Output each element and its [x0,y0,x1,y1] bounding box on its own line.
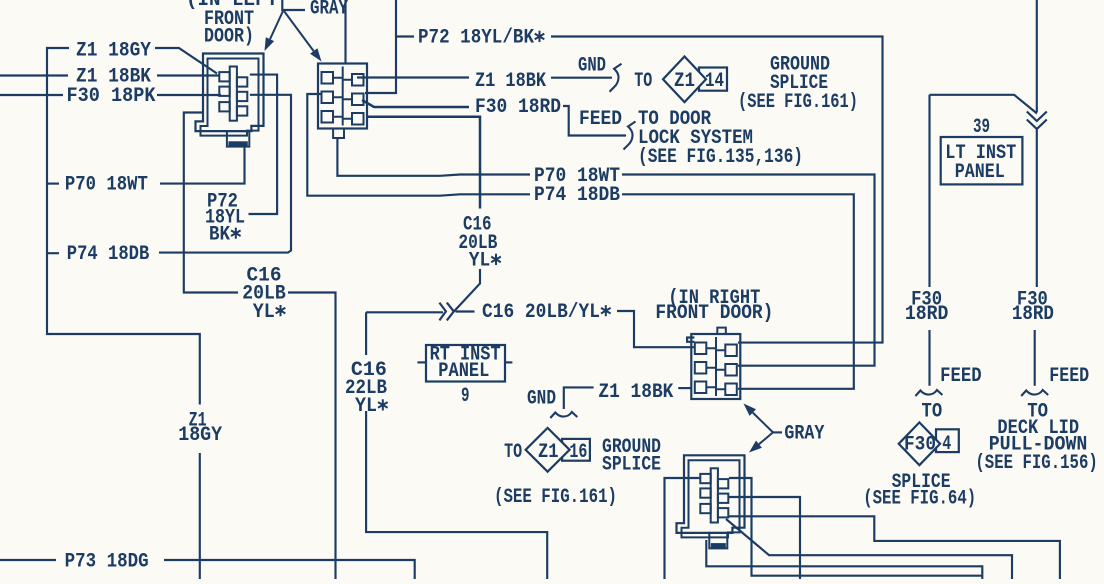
svg-text:(SEE FIG.161): (SEE FIG.161) [494,486,617,509]
connector C2 (left door harness) [318,64,367,129]
wire P70 18WT from C2 tab [337,138,530,176]
wire C4 tab to bottom [706,540,982,579]
wire C16 22LB YL vertical [365,312,367,355]
wire P70 18WT to right door [622,175,875,366]
connector C1 (in left front door) [196,54,264,132]
arrow GRAY to connector C4 [759,432,773,444]
wire P72 label stub [396,35,414,37]
connector C3 step notch [687,338,694,342]
wire C16 20LB from C1 left side [184,113,238,293]
wire Z1 18BK GND bracket [564,387,594,409]
star after P72 18YL/BK [535,31,545,42]
svg-text:FEED: FEED [1049,365,1089,388]
wire Z1 18GY vertical lower segment [199,453,201,579]
wire bus tick to P70 18WT [47,183,59,185]
box LT INST PANEL [941,137,1023,184]
svg-text:FRONT DOOR): FRONT DOOR) [655,302,773,325]
svg-text:TO: TO [922,401,943,424]
svg-text:SPLICE: SPLICE [602,453,661,476]
connector C4 (right door harness) [677,455,745,533]
svg-text:C16 20LB/YL: C16 20LB/YL [482,301,600,324]
svg-text:16: 16 [569,441,587,464]
svg-text:FEED: FEED [579,108,622,131]
wire GRAY leader from top edge [282,0,305,10]
wire C16 22LB YL to bottom edge [366,411,547,579]
wire C4 right pin 1 to bottom [729,478,982,576]
box RT INST PANEL [426,345,505,382]
svg-text:FEED: FEED [940,365,982,388]
wire Z1 18BK into connector C1 [157,74,219,76]
splice diamond Z1-16 [526,428,570,472]
wire F30 right vertical 2 [1034,330,1036,386]
svg-text:TO: TO [504,441,522,464]
svg-text:18GY: 18GY [178,424,223,447]
star after YL2 [491,254,501,265]
svg-text:YL: YL [469,250,491,273]
star after YL1 [276,305,286,316]
svg-text:Z1 18BK: Z1 18BK [475,70,547,93]
wire Z1 18BK from C2 to GND hook [357,76,469,78]
wire P74 18DB to right door [622,194,854,388]
hook wire continuation FEED door lock [624,122,636,150]
svg-text:14: 14 [705,70,724,93]
svg-text:39: 39 [973,116,990,139]
wire F30 left vertical [928,95,930,287]
wire C16 below label to break [454,269,480,311]
wire break chevron down 2 [1027,120,1047,130]
box terminal 4 [936,429,959,452]
svg-text:YL: YL [253,301,275,324]
wire break chevron 2 [447,303,454,321]
svg-text:9: 9 [461,385,470,408]
wire Z1 18GY diagonal into connector C1 [155,48,217,74]
wire C16 20LB to bottom edge [288,293,336,580]
svg-text:Z1 18BK: Z1 18BK [598,381,674,404]
svg-text:PANEL: PANEL [955,161,1005,184]
svg-text:BK: BK [209,224,231,247]
hook wire continuation F30 deck lid [1021,390,1048,396]
svg-text:Z1 18GY: Z1 18GY [76,40,152,63]
wire P74 18DB from C1 right pin [159,95,291,253]
wire P74 18DB from C2 left pin [307,94,530,196]
box terminal 14 [699,68,727,91]
wire P70 18WT to C1 bottom tab [160,146,245,184]
svg-text:P74 18DB: P74 18DB [67,243,150,266]
wire F30 right vertical lower [1036,129,1038,287]
star after BK [231,228,241,239]
hook wire continuation GND [610,64,622,92]
wire Z1 18BK into C3 [678,387,691,389]
wire bus tick to P74 18DB [47,252,59,254]
svg-text:F30 18RD: F30 18RD [475,96,561,119]
wire Z1 bus left vertical [47,48,200,405]
stub left of RT INST PANEL box [417,361,426,363]
wire P73 18DG from left edge [0,559,56,561]
svg-text:P70 18WT: P70 18WT [65,174,148,197]
wire P72 18YL/BK to C2 right pin [365,0,396,93]
star after C16 20LB/YL [601,305,611,316]
svg-text:P73 18DG: P73 18DG [65,551,149,574]
wire Z1 18BK label to hook [551,77,612,79]
arrow GRAY to connector C2 [284,11,314,51]
svg-text:Z1: Z1 [538,441,559,464]
svg-text:(SEE FIG.156): (SEE FIG.156) [975,452,1097,475]
wire F30 left vertical 2 [928,330,930,386]
wire GRAY leader bottom [773,431,782,433]
wire F30 18PK into connector C1 [157,94,221,96]
connector C3 (in right front door) [691,334,740,399]
hook wire continuation F30 splice [915,390,942,396]
splice diamond Z1-14 [663,57,706,103]
wire P72 18YL/BK to right door [551,37,883,343]
svg-text:YL: YL [355,395,377,418]
arrow GRAY to connector C3 [753,413,773,433]
wire break chevron down 1 [1027,112,1047,122]
wire F30 18PK from left edge [0,94,63,96]
wire F30 18RD from C2 [362,100,469,107]
svg-text:TO: TO [634,70,652,93]
star after YL3 [378,399,388,410]
svg-text:F30 18PK: F30 18PK [67,85,157,108]
svg-text:GND: GND [578,55,606,78]
wire C4 right pin 2 to bottom [729,497,800,579]
wire C16 20LB YL from C2 [366,117,480,209]
hook wire continuation GND splice 2 [550,412,577,418]
svg-text:DOOR): DOOR) [204,26,254,49]
svg-text:GND: GND [527,388,556,411]
svg-text:4: 4 [942,433,951,456]
stub right of RT INST PANEL box [505,361,512,363]
svg-text:18RD: 18RD [1012,303,1054,326]
svg-text:PANEL: PANEL [438,360,489,383]
svg-text:GRAY: GRAY [784,423,825,446]
svg-text:(SEE FIG.135,136): (SEE FIG.135,136) [638,146,803,169]
svg-text:GRAY: GRAY [310,0,348,21]
svg-text:F30: F30 [904,434,936,457]
splice diamond F30-4 [899,422,940,465]
wire C16 break to label [456,310,475,312]
wire C16 20LB/YL left segment [366,311,443,313]
wire C4 right pin 3 to bottom right [729,516,1060,579]
wire C4 diagonal to bottom [726,519,1012,579]
wire F30 right vertical from top edge [1036,0,1038,112]
svg-text:P72 18YL/BK: P72 18YL/BK [418,27,535,50]
wire C16 20LB/YL into C3 [617,311,694,347]
wire F30 18RD to FEED hook [563,106,626,136]
wire C2 top vertical from top edge [344,0,346,64]
wire Z1 18BK from left edge [0,74,68,76]
wire F30 to splice corner [930,95,1038,114]
svg-text:(SEE FIG.161): (SEE FIG.161) [738,91,858,114]
wire P72 18YL to C1 right pin [249,75,278,214]
svg-text:(SEE FIG.64): (SEE FIG.64) [863,488,976,511]
svg-text:18RD: 18RD [905,303,949,326]
wire C4 left pin to bottom edge [665,478,700,579]
svg-text:P74 18DB: P74 18DB [534,184,620,207]
box terminal 16 [562,439,590,461]
wire break chevron 1 [439,303,446,321]
arrow GRAY to connector C1 [270,11,283,39]
svg-text:Z1: Z1 [674,70,695,93]
wire P73 18DG to bottom edge [164,560,415,579]
